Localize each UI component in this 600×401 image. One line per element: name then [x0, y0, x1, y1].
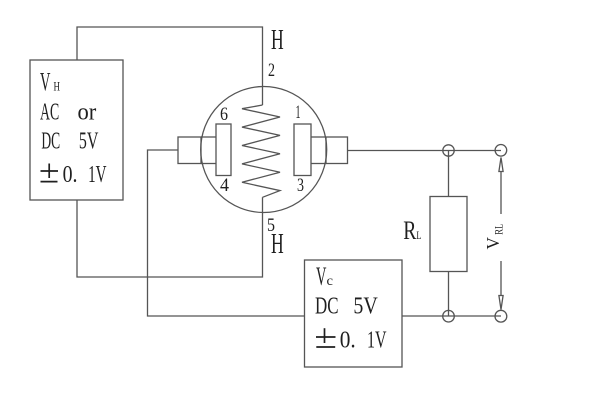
resistor RL body: [430, 197, 467, 272]
left lead link lines: [201, 136, 216, 138]
svg-text:DC: DC: [41, 128, 60, 154]
svg-text:V: V: [483, 237, 503, 250]
svg-text:6: 6: [220, 104, 228, 125]
right lead stub rectangle: [326, 137, 348, 164]
svg-text:c: c: [327, 274, 334, 289]
svg-text:5V: 5V: [79, 128, 99, 154]
source box VC: [305, 260, 403, 367]
svg-text:2: 2: [268, 60, 275, 81]
svg-text:V: V: [40, 68, 51, 97]
wire RL bottom to node: [448, 272, 450, 317]
right lead link lines: [311, 136, 326, 138]
label plus-minus (VH box) drawn: [41, 164, 59, 182]
svg-text:RL: RL: [492, 224, 506, 235]
VRL arrow lower head: [499, 296, 503, 310]
wire right lead to output node: [348, 150, 502, 152]
svg-text:H: H: [54, 79, 61, 94]
svg-text:1V: 1V: [88, 162, 107, 188]
wire node to RL top: [448, 151, 450, 197]
VRL arrow lower line: [500, 261, 502, 296]
svg-text:AC: AC: [40, 99, 59, 125]
terminal node bottom left: [443, 310, 455, 322]
wire VC box to bottom nodes: [402, 315, 501, 317]
wire VH bottom to pin 5 (heater H bottom): [77, 197, 263, 277]
svg-text:H: H: [271, 25, 284, 56]
source box VH: [30, 60, 123, 200]
svg-text:L: L: [416, 228, 421, 242]
right electrode plate (pins 1/3): [294, 124, 311, 176]
svg-text:H: H: [271, 229, 284, 260]
VRL arrow upper line: [500, 172, 502, 215]
svg-text:3: 3: [297, 175, 304, 196]
wire left lead to VC box: [148, 150, 305, 316]
label plus-minus (VC box) drawn: [316, 328, 336, 347]
heater resistor zigzag inside sensor: [242, 105, 280, 197]
svg-text:or: or: [78, 99, 97, 125]
svg-text:DC: DC: [315, 293, 339, 319]
terminal node bottom right: [495, 310, 507, 322]
gas sensor envelope circle U1: [201, 87, 327, 213]
svg-text:V: V: [316, 262, 327, 291]
svg-text:1V: 1V: [367, 328, 387, 354]
terminal node top left: [443, 145, 454, 156]
svg-text:0.: 0.: [340, 328, 356, 354]
svg-text:1: 1: [296, 102, 301, 123]
terminal node top right: [495, 145, 507, 157]
svg-text:4: 4: [220, 175, 229, 196]
VRL arrow upper head: [499, 158, 503, 172]
wire VH top to pin 2 (heater H top): [77, 27, 263, 105]
svg-text:R: R: [403, 215, 416, 245]
svg-text:5V: 5V: [353, 293, 378, 319]
left lead stub rectangle: [178, 137, 201, 164]
left electrode plate (pins 6/4): [216, 124, 231, 176]
svg-text:0.: 0.: [63, 162, 78, 188]
